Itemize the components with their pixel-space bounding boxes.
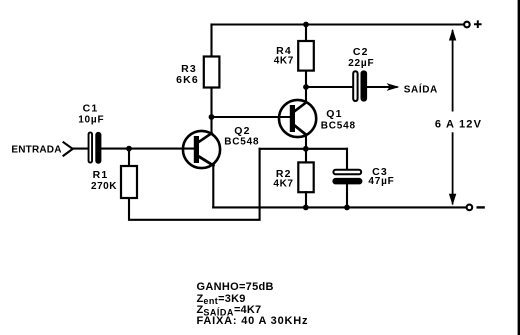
svg-text:270K: 270K: [91, 181, 117, 192]
svg-text:SAÍDA: SAÍDA: [404, 82, 438, 95]
svg-text:C1: C1: [83, 103, 99, 115]
svg-text:C2: C2: [353, 46, 369, 58]
svg-text:R1: R1: [93, 169, 109, 181]
svg-text:47µF: 47µF: [368, 176, 394, 187]
svg-text:10µF: 10µF: [78, 115, 104, 126]
svg-text:FAIXA: 40 A 30KHz: FAIXA: 40 A 30KHz: [197, 315, 309, 327]
svg-text:ENTRADA: ENTRADA: [11, 145, 61, 156]
svg-text:22µF: 22µF: [348, 58, 374, 69]
svg-text:BC548: BC548: [321, 121, 356, 132]
svg-text:Q1: Q1: [326, 108, 342, 120]
svg-text:Q2: Q2: [234, 125, 250, 137]
svg-text:BC548: BC548: [224, 137, 259, 148]
svg-text:4K7: 4K7: [273, 179, 293, 190]
svg-text:6K6: 6K6: [176, 74, 199, 86]
svg-text:6 A 12V: 6 A 12V: [435, 119, 482, 131]
svg-text:GANHO=75dB: GANHO=75dB: [197, 281, 274, 293]
svg-text:4K7: 4K7: [274, 55, 294, 66]
